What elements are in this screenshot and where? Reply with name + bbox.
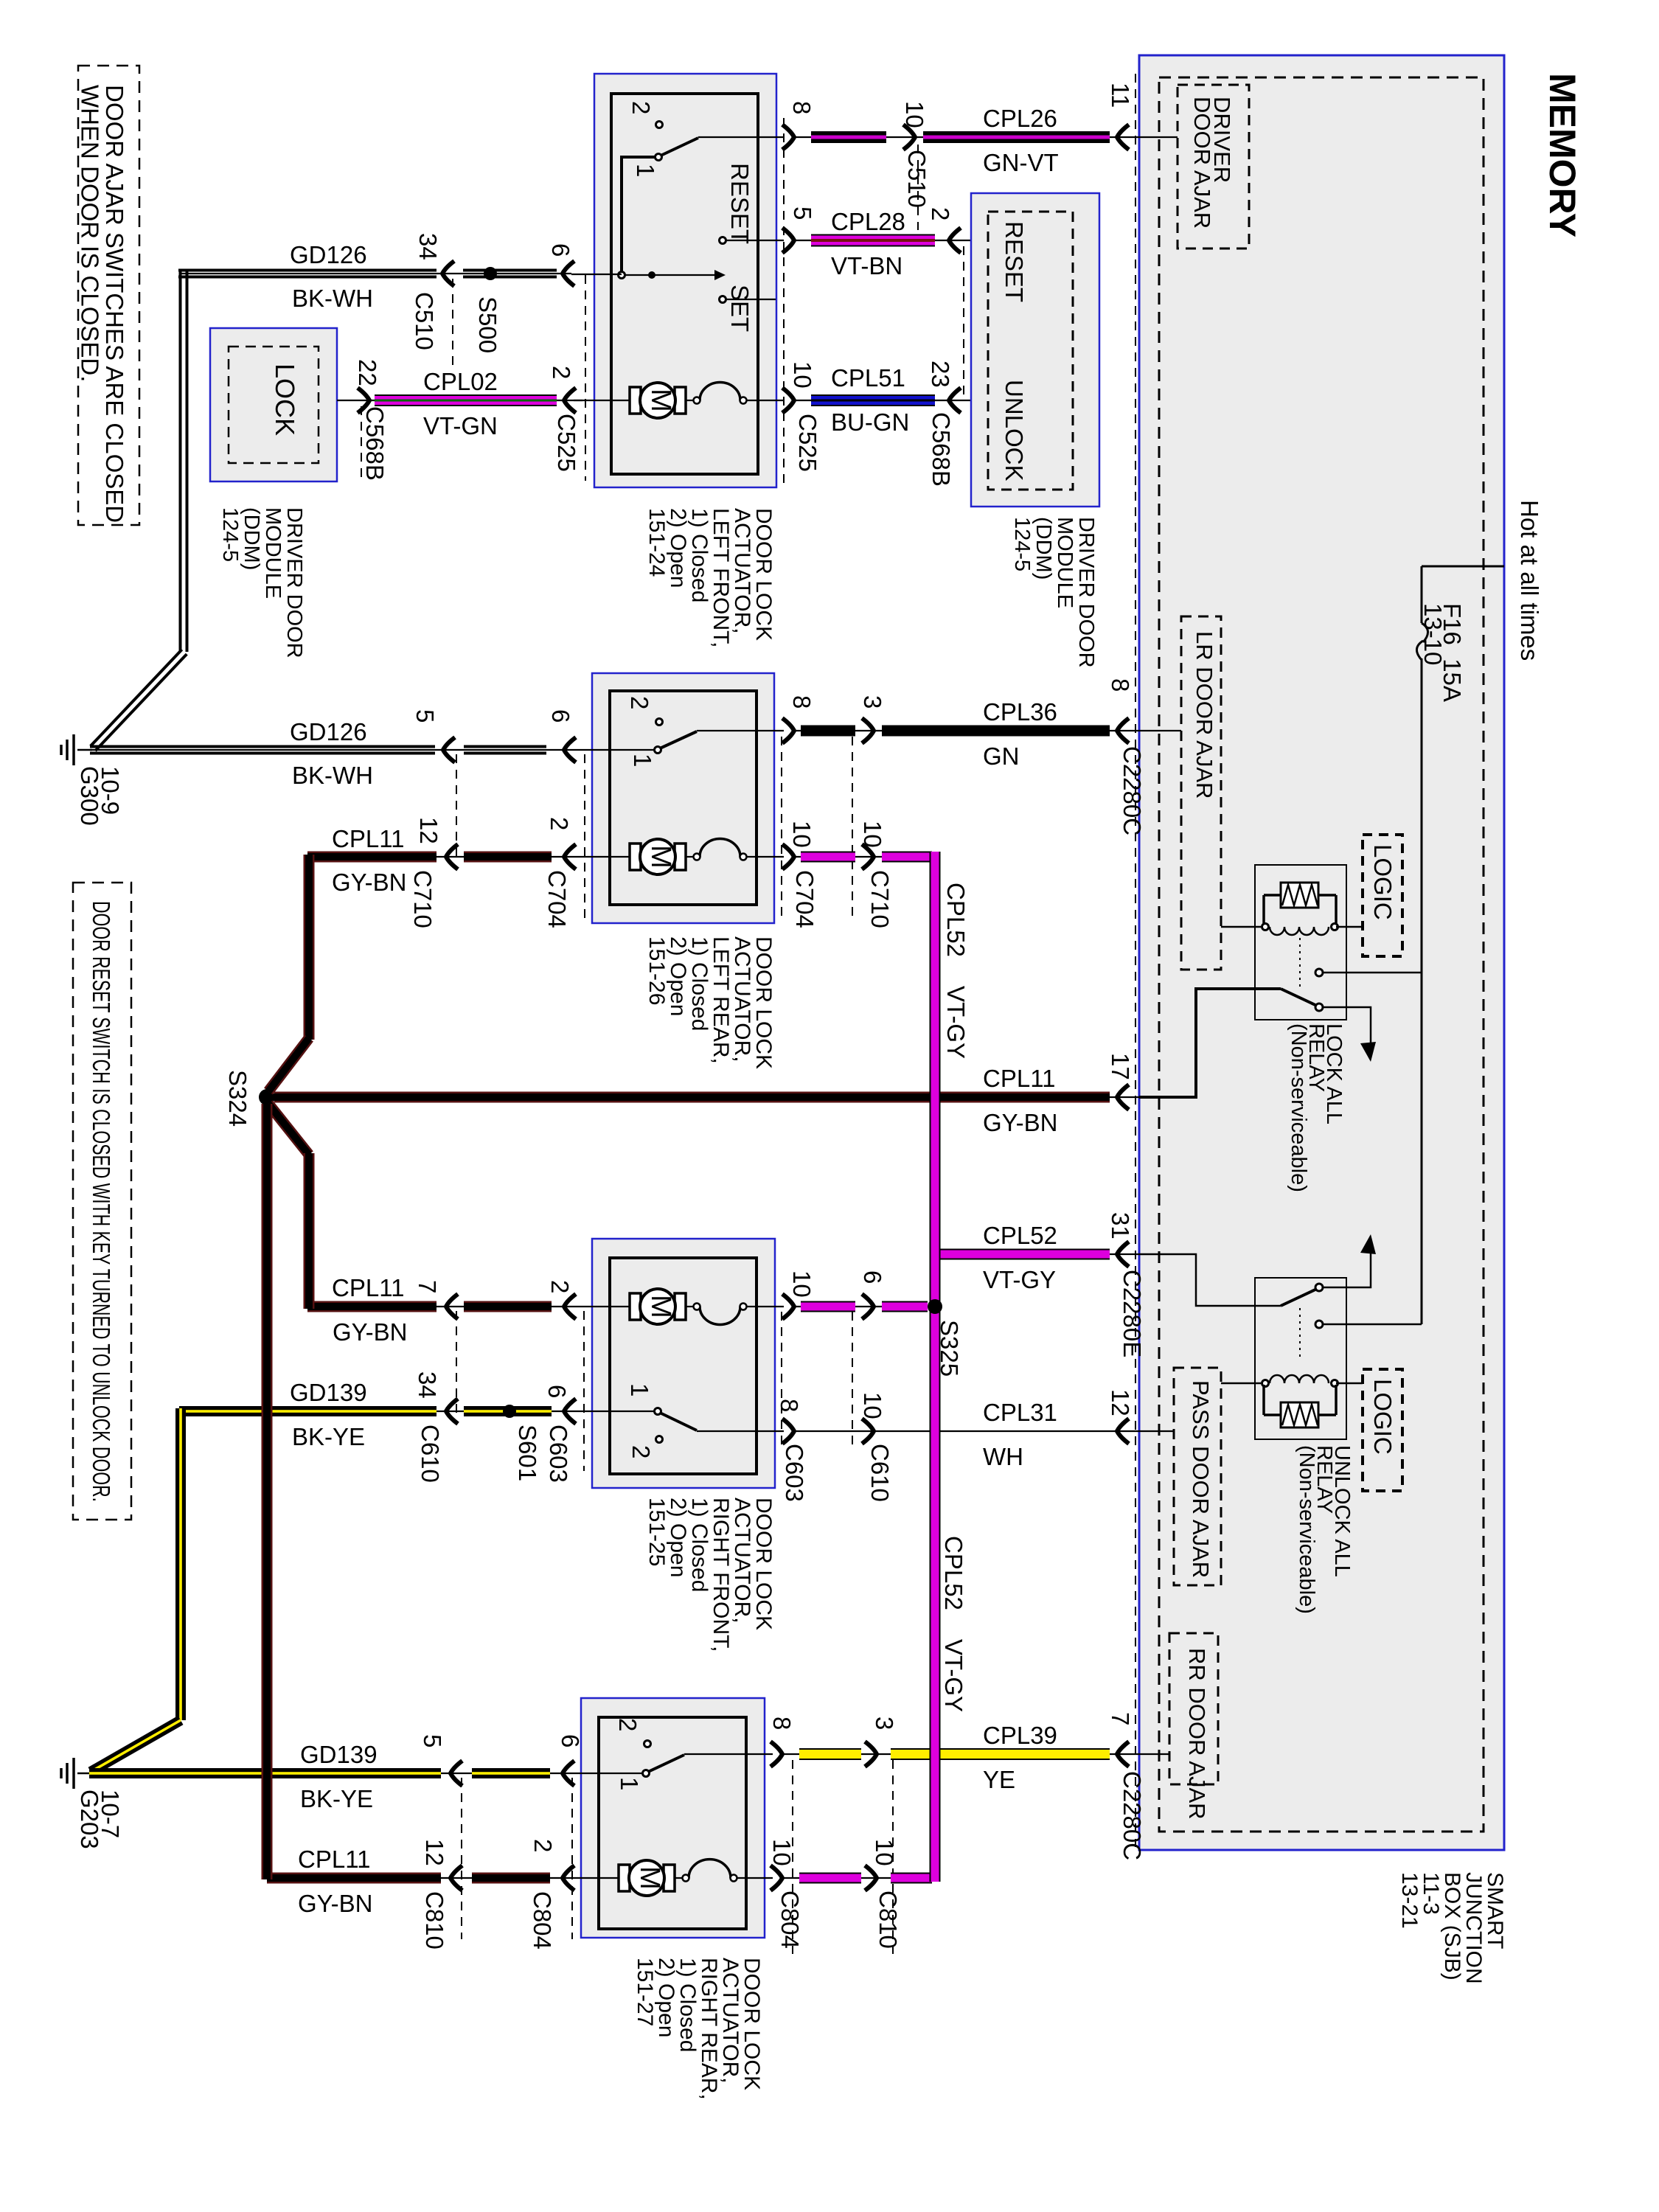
wire CPL11 GY-BN to RF actuator	[307, 1306, 574, 1307]
motor jumper loop	[700, 1307, 740, 1324]
door lock actuator right front box	[592, 1239, 775, 1488]
svg-text:6: 6	[859, 1270, 886, 1284]
svg-text:C510: C510	[411, 292, 438, 350]
svg-text:10: 10	[859, 1392, 886, 1419]
connector C810 dashed (left)	[461, 1778, 462, 1939]
svg-text:12: 12	[415, 817, 442, 844]
svg-text:WH: WH	[983, 1443, 1023, 1470]
svg-text:10: 10	[789, 361, 816, 389]
PASS DOOR AJAR box	[1174, 1368, 1221, 1585]
DRIVER DOOR AJAR box	[1178, 85, 1249, 248]
svg-text:C804: C804	[776, 1891, 804, 1949]
svg-text:GY-BN: GY-BN	[298, 1890, 372, 1917]
svg-text:1: 1	[629, 754, 656, 767]
relay armature dotted link	[1299, 938, 1301, 989]
door lock actuator left front box	[594, 74, 776, 487]
svg-text:34: 34	[414, 233, 442, 260]
wire CPL39 YE	[783, 1753, 1169, 1755]
svg-text:8: 8	[788, 695, 815, 709]
svg-text:6: 6	[543, 1385, 571, 1398]
svg-text:5: 5	[411, 709, 439, 723]
RESET contact	[720, 237, 726, 244]
wire GD139 BK-YE to RF actuator	[181, 1411, 574, 1412]
wire CPL02 VT-GN	[337, 400, 582, 401]
svg-text:8: 8	[1107, 678, 1134, 692]
wire GD139 BK-YE to RR actuator	[90, 1773, 563, 1774]
svg-text:C2280C: C2280C	[1119, 1771, 1146, 1860]
wire RESET contact to pin 5	[726, 240, 784, 241]
svg-text:C704: C704	[543, 870, 571, 928]
wire CPL31 WH	[795, 1430, 1174, 1432]
svg-text:17: 17	[1107, 1053, 1134, 1080]
relay NO contact	[1315, 1004, 1323, 1011]
wire CPL11 GY-BN to LR actuator	[307, 856, 574, 858]
svg-text:BU-GN: BU-GN	[831, 408, 909, 436]
svg-text:C804: C804	[529, 1891, 556, 1950]
svg-text:VT-GY: VT-GY	[983, 1266, 1056, 1293]
connector C810 dashed (right)	[892, 1760, 894, 1954]
connector C510 dashed stub (CPL26)	[917, 145, 919, 230]
junction node	[619, 272, 625, 279]
svg-text:RESET: RESET	[726, 163, 754, 244]
svg-text:BK-YE: BK-YE	[300, 1785, 373, 1812]
svg-text:MEMORY: MEMORY	[1542, 73, 1583, 237]
wire GD126 BK-WH to LR actuator	[90, 749, 574, 751]
svg-text:C610: C610	[866, 1444, 894, 1502]
wire common from pin 6	[563, 1773, 643, 1774]
svg-text:C510: C510	[903, 150, 931, 208]
svg-text:CPL39: CPL39	[983, 1722, 1057, 1749]
svg-text:1: 1	[616, 1777, 643, 1790]
LOCK ALL RELAY	[1255, 865, 1346, 1020]
connector C804 dashed (left)	[571, 1778, 573, 1939]
connector C704 dashed (right)	[781, 737, 782, 922]
svg-text:LOGIC: LOGIC	[1369, 1379, 1397, 1455]
svg-text:7: 7	[414, 1280, 441, 1293]
svg-text:C2280E: C2280E	[1119, 1270, 1146, 1357]
unlock relay arm	[1281, 1289, 1317, 1306]
svg-text:Hot at all times: Hot at all times	[1516, 500, 1543, 661]
svg-text:10: 10	[859, 821, 886, 848]
wire switch to pin 8	[698, 136, 784, 138]
wire motor left lead	[574, 856, 630, 858]
svg-text:12: 12	[1107, 1389, 1134, 1416]
svg-text:M: M	[634, 1866, 665, 1890]
svg-text:C525: C525	[794, 414, 821, 472]
svg-text:LOCK: LOCK	[270, 364, 300, 436]
svg-text:C603: C603	[545, 1425, 572, 1483]
svg-text:GN: GN	[983, 742, 1020, 770]
wire CPL28 VT-BN	[795, 240, 988, 241]
connector C704 dashed (left)	[584, 754, 585, 922]
wire common from pin 6	[574, 1411, 655, 1412]
wire switch to pin 8	[684, 1753, 773, 1755]
svg-text:10-9: 10-9	[97, 766, 124, 815]
svg-text:11: 11	[1107, 83, 1134, 108]
svg-text:C710: C710	[409, 870, 437, 928]
svg-text:1: 1	[632, 164, 659, 177]
svg-text:S601: S601	[514, 1425, 541, 1481]
svg-text:2: 2	[614, 1718, 641, 1731]
svg-text:BK-WH: BK-WH	[292, 285, 373, 312]
wire VT-GY RR motor from vertical run	[783, 1877, 931, 1879]
wire motor left lead	[563, 1877, 619, 1879]
wire CPL36 GN	[795, 730, 1181, 731]
relay arm	[1281, 989, 1317, 1006]
svg-text:2: 2	[626, 696, 653, 709]
RR DOOR AJAR box	[1169, 1633, 1218, 1784]
svg-text:CPL51: CPL51	[831, 364, 905, 392]
wire power feed from Hot at all times	[1422, 566, 1504, 568]
connector C603 dashed (left)	[583, 1311, 585, 1471]
svg-text:7: 7	[1107, 1712, 1134, 1725]
svg-text:CPL31: CPL31	[983, 1399, 1057, 1426]
ground G300	[77, 749, 92, 751]
svg-text:CPL11: CPL11	[298, 1846, 370, 1873]
splice S500	[484, 267, 497, 280]
svg-text:CPL36: CPL36	[983, 698, 1057, 726]
svg-text:CPL52: CPL52	[983, 1222, 1057, 1249]
svg-text:8: 8	[776, 1399, 803, 1412]
door lock actuator left rear box	[592, 673, 774, 923]
svg-text:CPL11: CPL11	[983, 1065, 1055, 1092]
svg-text:GN-VT: GN-VT	[983, 149, 1059, 176]
svg-text:C603: C603	[781, 1444, 808, 1502]
wire CPL52 VT-GY to SJB	[935, 1253, 1139, 1255]
svg-text:PASS DOOR AJAR: PASS DOOR AJAR	[1188, 1380, 1214, 1578]
LR actuator motor M	[630, 844, 641, 870]
svg-text:BK-YE: BK-YE	[292, 1423, 365, 1450]
svg-text:RESET: RESET	[1001, 221, 1028, 302]
connector C610 dashed (right)	[852, 1312, 853, 1447]
motor jumper loop	[700, 839, 740, 857]
motor jumper loop	[700, 383, 740, 400]
wire CPL26 GN-VT	[795, 136, 1178, 138]
unlock relay hook arrow	[1323, 1245, 1371, 1287]
svg-text:C568B: C568B	[361, 406, 389, 481]
RR actuator door-ajar switch	[644, 1741, 651, 1747]
svg-text:GY-BN: GY-BN	[333, 1318, 407, 1346]
connector C804 dashed (right)	[792, 1760, 793, 1954]
svg-text:CPL11: CPL11	[332, 825, 404, 852]
svg-text:BK-WH: BK-WH	[292, 762, 373, 789]
svg-text:8: 8	[768, 1717, 796, 1730]
svg-text:2: 2	[627, 101, 655, 114]
svg-text:3: 3	[871, 1717, 898, 1730]
unlock relay coil	[1221, 1382, 1261, 1385]
connector C610 dashed (left)	[456, 1311, 457, 1416]
svg-text:1: 1	[626, 1383, 653, 1397]
RR actuator motor M	[619, 1865, 630, 1891]
relay coil	[1221, 926, 1261, 928]
svg-text:CPL26: CPL26	[983, 105, 1057, 132]
svg-text:M: M	[645, 1295, 676, 1318]
wire VT-GY LR motor to vertical run	[795, 856, 931, 858]
svg-text:C710: C710	[866, 870, 894, 928]
unlock relay NO contact	[1315, 1284, 1323, 1291]
svg-text:GY-BN: GY-BN	[332, 869, 406, 896]
wire lock relay to unlock relay feed	[1421, 973, 1423, 1324]
svg-text:5: 5	[419, 1734, 446, 1747]
connector C603 dashed (right)	[781, 1312, 782, 1447]
svg-text:C525: C525	[553, 414, 580, 472]
wire CPL11 into lock relay common	[1139, 989, 1281, 1097]
connector C710 dashed (right)	[852, 737, 853, 922]
UNLOCK ALL RELAY	[1255, 1278, 1346, 1439]
svg-text:VT-GY: VT-GY	[942, 986, 970, 1059]
note box: door reset switch note	[73, 883, 131, 1520]
svg-text:CPL52: CPL52	[940, 1536, 967, 1610]
wire switch to pin 8	[697, 730, 784, 731]
svg-text:31: 31	[1107, 1212, 1134, 1239]
wire CPL52 VT-GY vertical run	[930, 852, 941, 1882]
note box: door ajar switches are closed when door is closed	[78, 66, 139, 525]
svg-text:YE: YE	[983, 1766, 1015, 1793]
wire CPL11 drop to row4	[262, 1104, 273, 1879]
svg-text:GD139: GD139	[290, 1379, 367, 1406]
svg-text:CPL11: CPL11	[332, 1274, 404, 1301]
LR actuator door-ajar switch	[656, 719, 663, 726]
DDM RESET/UNLOCK box	[971, 193, 1099, 507]
svg-text:M: M	[645, 845, 676, 869]
svg-text:C704: C704	[791, 870, 818, 928]
wire CPL11 riser to row2	[304, 855, 315, 1040]
svg-text:SET: SET	[726, 285, 754, 332]
svg-text:23: 23	[927, 361, 954, 388]
svg-text:2: 2	[546, 1280, 574, 1293]
relay NC contact	[1315, 969, 1323, 976]
connector C568B dashed line	[963, 246, 964, 397]
unlock relay armature dotted link	[1299, 1308, 1301, 1359]
RF actuator motor M	[630, 1293, 641, 1320]
svg-text:C2280C: C2280C	[1119, 746, 1146, 835]
splice S324	[259, 1089, 275, 1105]
Smart Junction Box (SJB) outline	[1139, 55, 1504, 1850]
wire motor left lead	[574, 1306, 630, 1307]
wire SET contact	[726, 299, 776, 300]
wire GD126 BK-WH	[181, 273, 571, 274]
svg-text:6: 6	[547, 709, 574, 723]
SJB inner dashed boundary	[1159, 77, 1484, 1832]
fuse F16 15A	[1416, 623, 1427, 660]
svg-text:GD139: GD139	[300, 1741, 378, 1768]
svg-text:10: 10	[788, 821, 815, 848]
svg-text:CPL28: CPL28	[831, 208, 905, 235]
svg-text:DOOR RESET SWITCH IS CLOSED WI: DOOR RESET SWITCH IS CLOSED WITH KEY TUR…	[88, 901, 115, 1502]
svg-text:GD126: GD126	[290, 718, 367, 745]
svg-text:VT-BN: VT-BN	[831, 252, 902, 279]
svg-text:C568B: C568B	[928, 412, 955, 487]
connector C2280 dashed line at SJB edge	[1135, 74, 1136, 1847]
svg-text:M: M	[645, 389, 676, 412]
splice S601	[503, 1405, 516, 1418]
connector C525 dashed (right)	[783, 118, 785, 483]
lock relay output hook arrow	[1323, 1007, 1371, 1051]
svg-text:3: 3	[859, 695, 886, 709]
DDM LOCK switch box	[210, 328, 337, 481]
svg-text:2: 2	[548, 366, 575, 379]
svg-text:2: 2	[546, 817, 573, 830]
junction dot	[648, 271, 655, 279]
svg-text:RR DOOR AJAR: RR DOOR AJAR	[1184, 1648, 1210, 1820]
connector C710 dashed (left)	[456, 754, 457, 861]
wire motor to pin 10	[746, 856, 784, 858]
RF actuator door-ajar switch (mirrored)	[655, 1408, 661, 1415]
svg-text:GD126: GD126	[290, 241, 367, 268]
svg-text:2: 2	[927, 207, 954, 220]
LF actuator door-ajar switch	[656, 122, 663, 128]
svg-text:C810: C810	[421, 1891, 448, 1950]
svg-text:VT-GY: VT-GY	[940, 1639, 967, 1712]
wire common from pin 6	[574, 749, 655, 751]
SET contact	[720, 296, 726, 303]
svg-text:C610: C610	[417, 1425, 444, 1483]
svg-text:UNLOCK: UNLOCK	[1001, 380, 1028, 481]
svg-text:GY-BN: GY-BN	[983, 1109, 1057, 1136]
door lock actuator right rear box	[581, 1698, 765, 1938]
wire CPL52 into unlock relay common	[1139, 1254, 1281, 1306]
motor jumper loop	[689, 1860, 731, 1878]
LOGIC box (lock)	[1363, 835, 1402, 956]
wire motor to pin 10	[737, 1877, 773, 1879]
wire CPL11 riser to row3	[268, 1104, 309, 1155]
LF actuator motor M	[630, 387, 641, 414]
connector C568B dashed stub	[361, 406, 362, 479]
svg-text:2: 2	[627, 1445, 655, 1458]
svg-text:5: 5	[789, 206, 816, 220]
wire motor to pin 10	[746, 400, 784, 401]
svg-text:CPL02: CPL02	[423, 368, 498, 395]
wire CPL11 GY-BN to RR actuator	[267, 1877, 563, 1879]
wire motor left lead	[574, 400, 630, 401]
svg-text:6: 6	[547, 243, 574, 257]
svg-text:LOGIC: LOGIC	[1369, 844, 1397, 920]
L-wire pin1 to ground junction	[622, 157, 656, 272]
wire NC contact to fuse line	[1323, 972, 1422, 974]
wire GD126 riser to ground	[179, 271, 182, 652]
wire CPL51 BU-GN	[795, 400, 988, 401]
wire VT-GY RF motor to splice S325	[795, 1306, 931, 1307]
svg-text:34: 34	[414, 1371, 441, 1399]
svg-text:2: 2	[529, 1839, 557, 1852]
svg-text:6: 6	[557, 1734, 584, 1747]
svg-text:S324: S324	[224, 1070, 251, 1127]
connector C510 dashed stub	[452, 279, 453, 369]
svg-text:10-7: 10-7	[97, 1790, 124, 1838]
svg-text:8: 8	[788, 101, 815, 114]
wire fuse to lock relay	[1421, 658, 1423, 973]
svg-text:LR DOOR AJAR: LR DOOR AJAR	[1192, 631, 1217, 799]
svg-text:12: 12	[421, 1839, 448, 1866]
svg-text:C810: C810	[874, 1891, 902, 1949]
wire GD139 riser to ground G203	[175, 1408, 186, 1720]
wire motor to pin 10	[746, 1306, 784, 1307]
ground G203	[77, 1773, 92, 1775]
splice S325	[928, 1299, 942, 1314]
wire unlock NC contact to fuse line	[1323, 1324, 1422, 1326]
LOGIC box (unlock)	[1363, 1369, 1402, 1491]
svg-text:22: 22	[354, 359, 381, 386]
wire switch to pin 8	[697, 1430, 784, 1432]
svg-text:VT-GN: VT-GN	[423, 412, 498, 439]
unlock relay NC contact	[1315, 1321, 1323, 1328]
LR DOOR AJAR box	[1181, 616, 1221, 970]
svg-text:10: 10	[901, 101, 928, 128]
svg-text:10: 10	[768, 1839, 796, 1866]
svg-text:S500: S500	[474, 296, 501, 353]
svg-text:CPL52: CPL52	[942, 883, 970, 957]
wire common wiper feed	[625, 274, 716, 276]
connector C525 dashed (left)	[585, 275, 586, 481]
svg-text:10: 10	[871, 1839, 898, 1866]
svg-text:10: 10	[788, 1270, 815, 1298]
wire CPL11 GY-BN to SJB pin 17	[273, 1096, 1139, 1098]
